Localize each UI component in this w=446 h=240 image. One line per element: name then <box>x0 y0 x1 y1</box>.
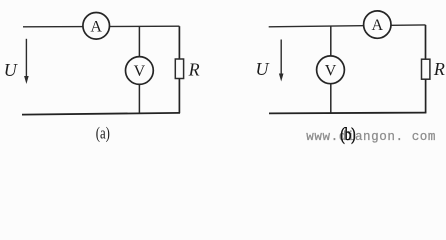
wire: right branch lower segment circuit (b) <box>425 79 427 113</box>
svg-text:(a): (a) <box>96 124 110 143</box>
wire: right branch lower segment circuit (a) <box>178 79 180 114</box>
wire: bottom wire of circuit (b) <box>269 112 426 115</box>
wire: voltmeter branch of circuit (b) <box>330 26 332 113</box>
svg-text:(b): (b) <box>340 124 355 144</box>
voltmeter V (circuit b) <box>317 56 345 84</box>
ammeter A (circuit b) <box>364 11 391 38</box>
arrow: voltage direction of U (circuit a) <box>24 39 29 84</box>
wire: right branch upper segment circuit (b) <box>425 25 427 60</box>
wire: bottom wire of circuit (a) <box>22 113 180 115</box>
wire: right branch upper segment circuit (a) <box>178 26 180 59</box>
svg-text:U: U <box>4 60 18 80</box>
svg-text:U: U <box>256 59 270 79</box>
wire: top wire of circuit (b) <box>269 25 426 27</box>
arrow: voltage direction of U (circuit b) <box>279 40 284 82</box>
ammeter A (circuit a) <box>83 12 110 39</box>
svg-text:V: V <box>134 63 146 80</box>
voltmeter V (circuit a) <box>125 57 153 85</box>
wire: voltmeter branch of circuit (a) <box>138 26 140 113</box>
svg-text:A: A <box>372 17 384 34</box>
svg-text:A: A <box>90 18 102 35</box>
resistor R (circuit a) <box>175 59 183 79</box>
resistor R (circuit b) <box>422 59 430 79</box>
svg-text:V: V <box>325 62 337 79</box>
wire: top wire of circuit (a) <box>23 25 179 28</box>
svg-text:R: R <box>188 60 200 80</box>
svg-text:www.diangon. com: www.diangon. com <box>306 130 436 144</box>
svg-text:R: R <box>433 59 445 79</box>
